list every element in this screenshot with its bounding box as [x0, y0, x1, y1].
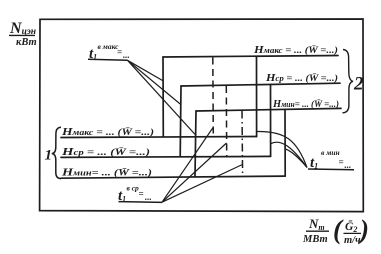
plot frame: [40, 19, 364, 212]
dashed centre line of rect мин: [241, 111, 244, 177]
dashed centre line of rect макс: [212, 58, 215, 137]
svg-text:МВт: МВт: [302, 234, 328, 245]
svg-text:Nт: Nт: [308, 216, 325, 232]
brace group 1: [52, 127, 61, 178]
leader from t1 в ср to dashed line of rect макс: [162, 127, 213, 202]
svg-text:Ḡ2: Ḡ2: [345, 220, 357, 234]
svg-text:...: ...: [345, 160, 352, 170]
leader from t1 в ср to dashed line of rect мин: [162, 165, 242, 203]
leader from t1 в макс to left edge of rect ср: [128, 60, 181, 104]
leader from t1 в мин to right edge of rect макс: [257, 131, 307, 167]
svg-text:1: 1: [45, 148, 53, 164]
leader from t1 в мин to right edge of rect ср: [271, 142, 307, 167]
svg-text:т/ч: т/ч: [344, 235, 361, 246]
svg-text:Нср = ... (W̄ =...): Нср = ... (W̄ =...): [61, 146, 150, 158]
svg-text:в ср: в ср: [127, 184, 140, 193]
svg-text:2: 2: [353, 74, 364, 95]
svg-text:Нмакс = ... (W̄ =...): Нмакс = ... (W̄ =...): [61, 126, 154, 138]
leader from t1 в макс to left edge of rect мин: [128, 60, 196, 135]
dashed centre line of rect ср: [225, 86, 227, 156]
leader from t1 в макс to left edge of rect макс: [128, 60, 164, 81]
svg-text:...: ...: [145, 192, 152, 202]
label t1 в ср: [118, 184, 162, 205]
svg-text:Nцэн: Nцэн: [9, 20, 36, 37]
rectangle H мин: [61, 108, 341, 178]
svg-text:Нмакс = ... (W̄ =...): Нмакс = ... (W̄ =...): [253, 44, 338, 56]
svg-text:Нср = ... (W̄ =...): Нср = ... (W̄ =...): [265, 72, 338, 84]
y-axis label N_цэн/кВт: [9, 20, 37, 48]
svg-text:Нмин= ... (W̄ =...): Нмин= ... (W̄ =...): [61, 167, 152, 179]
label t1 в мин: [308, 148, 354, 171]
rectangle H макс (top line extended right as label shelf): [61, 56, 338, 138]
svg-text:в макс: в макс: [98, 42, 120, 51]
brace group 2: [343, 50, 354, 113]
svg-text:=: =: [139, 189, 144, 199]
x-axis label N_т/МВт (G2/т/ч): [302, 215, 369, 247]
label t1 в макс: [88, 42, 130, 62]
svg-text:=: =: [339, 157, 344, 167]
rectangle H ср: [61, 83, 340, 157]
svg-text:=: =: [117, 47, 122, 57]
svg-text:Нмин= ... (W̄ =...): Нмин= ... (W̄ =...): [272, 98, 339, 110]
svg-text:кВт: кВт: [16, 37, 37, 48]
svg-text:...: ...: [123, 50, 130, 60]
svg-text:в мин: в мин: [321, 148, 340, 157]
leader from t1 в ср to dashed line of rect ср: [162, 143, 227, 202]
svg-text:(: (: [333, 215, 344, 245]
leader from t1 в мин to right edge of rect мин: [285, 149, 307, 168]
